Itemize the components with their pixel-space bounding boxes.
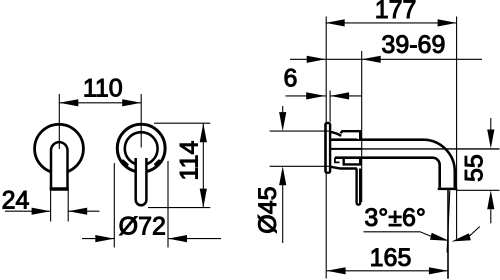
spout body [330,140,455,189]
svg-text:114: 114 [176,140,204,180]
svg-text:55: 55 [460,154,488,182]
arrow 177 left [326,19,345,26]
hub block bottom [344,158,361,165]
spout axis centerline thick part [330,148,361,150]
dim 114 extension top [154,122,210,124]
dim 55 arrow bottom tail [490,210,492,224]
svg-text:3°±6°: 3°±6° [364,204,426,232]
sleeve top edge [330,132,341,136]
arrow 55 top [487,130,494,149]
dim 114 line [202,123,204,207]
dim 6 extension right [329,91,331,122]
dim 110 line [59,102,141,104]
svg-text:177: 177 [375,0,417,24]
dim 39-69 line [290,58,482,60]
dim O72 line left tail [82,238,114,240]
arrow O45 top [279,112,286,131]
dim 6 line right tail [330,95,362,97]
spout outlet bottom edge [438,188,458,191]
lever capsule bottom thick edge [50,187,69,190]
hub block top [340,131,360,139]
mixer handle grip white fill (front) [136,157,147,205]
mixer handle grip outline [136,158,147,205]
dim 114 extension bottom [148,207,210,209]
arrow O72 left [95,235,114,242]
arrow O45 bottom [279,166,286,185]
dim 177 extension right [456,17,458,241]
arrow 110 right [122,99,141,106]
angle leader line [364,232,434,237]
arrow 55 bottom [487,190,494,209]
arrow 114 top [200,123,207,142]
dim 177 line [326,22,457,24]
escutcheon circle right (outer) [117,124,165,172]
lever handle capsule (front) [51,142,68,189]
arrow 39-69 left [307,56,326,63]
dim O45 extension bottom [270,165,329,167]
wall plate (escutcheon edge-on) [325,123,330,173]
arrow O72 right [168,235,187,242]
lever pivot step [335,158,340,163]
svg-text:Ø72: Ø72 [119,213,166,241]
main left extension line of side view [325,17,327,279]
arrow angle right [452,233,471,241]
arrow 39-69 right [362,56,381,63]
arrow angle left [430,233,449,241]
spout axis centerline (thin) [330,148,499,150]
dim 55 arrow top tail [490,118,492,130]
dim O45 extension top [270,130,329,132]
spout outline stroke [330,140,455,188]
arrow 24 left [32,208,51,215]
dim O72 extension right [167,161,169,248]
svg-text:110: 110 [83,74,123,102]
dim 110 extension right [140,94,142,148]
lever grip (side) [357,169,361,205]
sleeve bottom edge [330,167,357,169]
angle reference vertical line [447,190,449,279]
mixer ring tick lower-left [123,161,127,165]
dim 24 line left tail [5,210,51,212]
dim 39-69 extension right [361,51,363,202]
arrow 110 left [59,99,78,106]
svg-text:6: 6 [283,65,297,93]
svg-text:39-69: 39-69 [381,31,445,59]
escutcheon circle left [35,124,84,173]
angle tilted line [447,190,450,252]
arrow 114 bottom [200,189,207,208]
arrow 165 left [327,267,346,274]
dim 24 line right tail [68,210,99,212]
dim O45 arrow bottom tail [282,184,284,243]
dim 6 line left tail [286,95,326,97]
dim O72 line right tail [168,238,221,240]
dim 165 line [327,270,448,272]
dim O45 arrow top tail [282,106,284,114]
mixer inner ring [125,132,158,165]
arrow 6 left [306,92,325,99]
mixer ring tick lower-right [156,161,160,165]
dim 24 extension left [50,190,52,222]
svg-text:165: 165 [370,244,412,272]
arrow 24 right [68,208,87,215]
dim 24 extension right [67,190,69,222]
angle right tail [470,227,480,237]
arrow 165 right [429,267,448,274]
dim 55 extension bottom [456,189,500,191]
dim 110 extension left [58,94,60,149]
svg-text:Ø45: Ø45 [254,186,282,233]
dim O72 extension left [113,163,115,248]
arrow 6 right [330,92,349,99]
arrow 177 right [438,19,457,26]
svg-text:24: 24 [2,187,30,215]
